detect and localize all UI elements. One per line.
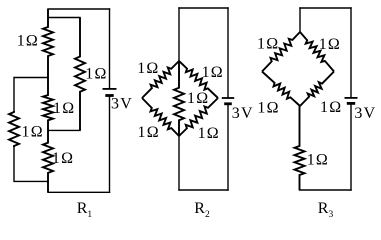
wire bottom (circuit 2) <box>179 189 228 191</box>
resistor 1ohm bridge top-left (circuit 3) <box>262 32 300 72</box>
resistor 1ohm bridge top-left (circuit 2) <box>142 61 179 98</box>
svg-text:1Ω: 1Ω <box>187 90 209 107</box>
battery 3V positive plate (circuit 1) <box>103 88 117 90</box>
battery 3V wire top lead (circuit 3) <box>350 8 352 97</box>
svg-text:1Ω: 1Ω <box>257 36 279 53</box>
svg-text:1Ω: 1Ω <box>137 60 159 77</box>
svg-text:1Ω: 1Ω <box>52 150 74 167</box>
wire top inner (circuit 1) <box>48 17 80 19</box>
battery 3V wire bottom lead (circuit 3) <box>350 105 352 190</box>
resistor 1ohm bottom of chain <box>43 130 53 192</box>
svg-text:1Ω: 1Ω <box>319 36 341 53</box>
resistor 1ohm bridge bottom-left (circuit 2) <box>142 98 179 136</box>
battery 3V wire bottom lead (circuit 1) <box>109 97 111 192</box>
resistor 1ohm series bottom (circuit 3) <box>295 106 305 190</box>
svg-text:3V: 3V <box>232 105 254 122</box>
battery 3V positive plate (circuit 2) <box>222 97 234 99</box>
svg-text:1Ω: 1Ω <box>138 124 160 141</box>
resistor 1ohm bridge top-right (circuit 2) <box>179 61 218 98</box>
resistor 1ohm left branch <box>9 111 19 147</box>
resistor 1ohm bridge bottom-right (circuit 3) <box>300 72 334 107</box>
svg-text:1Ω: 1Ω <box>17 33 39 50</box>
svg-text:1Ω: 1Ω <box>85 66 107 83</box>
resistor 1ohm bridge bottom-left (circuit 3) <box>262 72 300 107</box>
svg-text:1Ω: 1Ω <box>257 100 279 117</box>
resistor 1ohm middle of chain <box>43 78 53 131</box>
wire top vertical to bridge apex (circuit 2) <box>178 8 180 61</box>
svg-text:3V: 3V <box>354 105 376 122</box>
svg-text:1Ω: 1Ω <box>307 152 329 169</box>
battery 3V negative plate (circuit 1) <box>105 94 113 97</box>
svg-text:1Ω: 1Ω <box>53 100 75 117</box>
battery 3V wire top lead (circuit 2) <box>227 8 229 97</box>
wire top (circuit 2) <box>179 7 228 9</box>
wire top (circuit 3) <box>300 7 351 9</box>
wire bottom-left corner <box>14 146 48 181</box>
svg-text:1Ω: 1Ω <box>202 64 224 81</box>
wire bottom (circuit 1) <box>48 191 110 193</box>
wire top vertical to bridge apex (circuit 3) <box>299 8 301 32</box>
battery 3V wire top lead (circuit 1) <box>109 9 111 88</box>
battery 3V positive plate (circuit 3) <box>345 97 358 99</box>
svg-text:1Ω: 1Ω <box>198 125 220 142</box>
wire top outer (circuit 1) <box>48 8 110 10</box>
resistor 1ohm bridge bottom-right (circuit 2) <box>179 98 218 136</box>
resistor 1ohm bridge middle (circuit 2) <box>174 61 184 136</box>
resistor 1ohm middle branch <box>75 18 85 131</box>
wire mid connector node to middle branch <box>48 129 80 131</box>
svg-text:3V: 3V <box>111 96 133 113</box>
battery 3V negative plate (circuit 2) <box>224 102 232 105</box>
battery 3V negative plate (circuit 3) <box>347 102 355 105</box>
resistor 1ohm bridge top-right (circuit 3) <box>300 32 334 72</box>
resistor 1ohm top-left chain <box>43 9 53 78</box>
wire bottom (circuit 3) <box>300 189 352 191</box>
battery 3V wire bottom lead (circuit 2) <box>227 105 229 190</box>
wire left branch from node to left rail <box>14 78 48 112</box>
svg-text:1Ω: 1Ω <box>22 124 44 141</box>
svg-text:1Ω: 1Ω <box>320 99 342 116</box>
wire bottom vertical from bridge (circuit 2) <box>178 136 180 190</box>
